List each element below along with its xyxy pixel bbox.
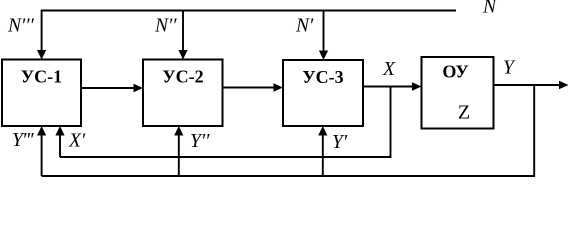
svg-text:N′′: N′′	[154, 16, 177, 37]
svg-text:ОУ: ОУ	[442, 62, 468, 82]
svg-text:Y′: Y′	[332, 132, 348, 153]
wire N''' drop into УС-1	[37, 10, 46, 60]
wire Y feedback branch down and left	[42, 85, 535, 176]
wire X feedback branch down and left	[60, 87, 391, 158]
wire X' up into УС-1 bottom	[55, 126, 64, 157]
wire N'' drop into УС-2	[178, 10, 187, 60]
block УС-2	[143, 60, 223, 127]
svg-text:Y′′: Y′′	[190, 131, 210, 152]
wire УС-3 to ОУ, node X	[363, 82, 422, 91]
svg-text:УС-2: УС-2	[162, 67, 203, 87]
svg-text:X′: X′	[68, 131, 86, 152]
svg-text:УС-3: УС-3	[302, 67, 343, 87]
block УС-1	[2, 60, 81, 127]
svg-text:N′: N′	[295, 16, 314, 37]
wire Y''' up into УС-1 bottom	[37, 126, 46, 176]
svg-text:N: N	[482, 0, 497, 18]
wire ОУ output Y to right edge	[494, 81, 569, 90]
block ОУ / Z	[422, 57, 494, 129]
svg-text:Z: Z	[458, 102, 470, 124]
svg-text:УС-1: УС-1	[21, 67, 62, 87]
wire УС-2 to УС-3	[223, 83, 284, 92]
block УС-3	[283, 60, 363, 126]
svg-text:Y′′′: Y′′′	[12, 130, 34, 151]
wire УС-1 to УС-2	[81, 84, 143, 93]
svg-text:X: X	[382, 59, 396, 80]
wire N' drop into УС-3	[319, 10, 328, 60]
svg-text:N′′′: N′′′	[7, 16, 35, 37]
wire Y'' up into УС-2 bottom	[174, 126, 183, 176]
wire Y' up into УС-3 bottom	[318, 126, 327, 176]
wire top bus N	[42, 10, 456, 12]
